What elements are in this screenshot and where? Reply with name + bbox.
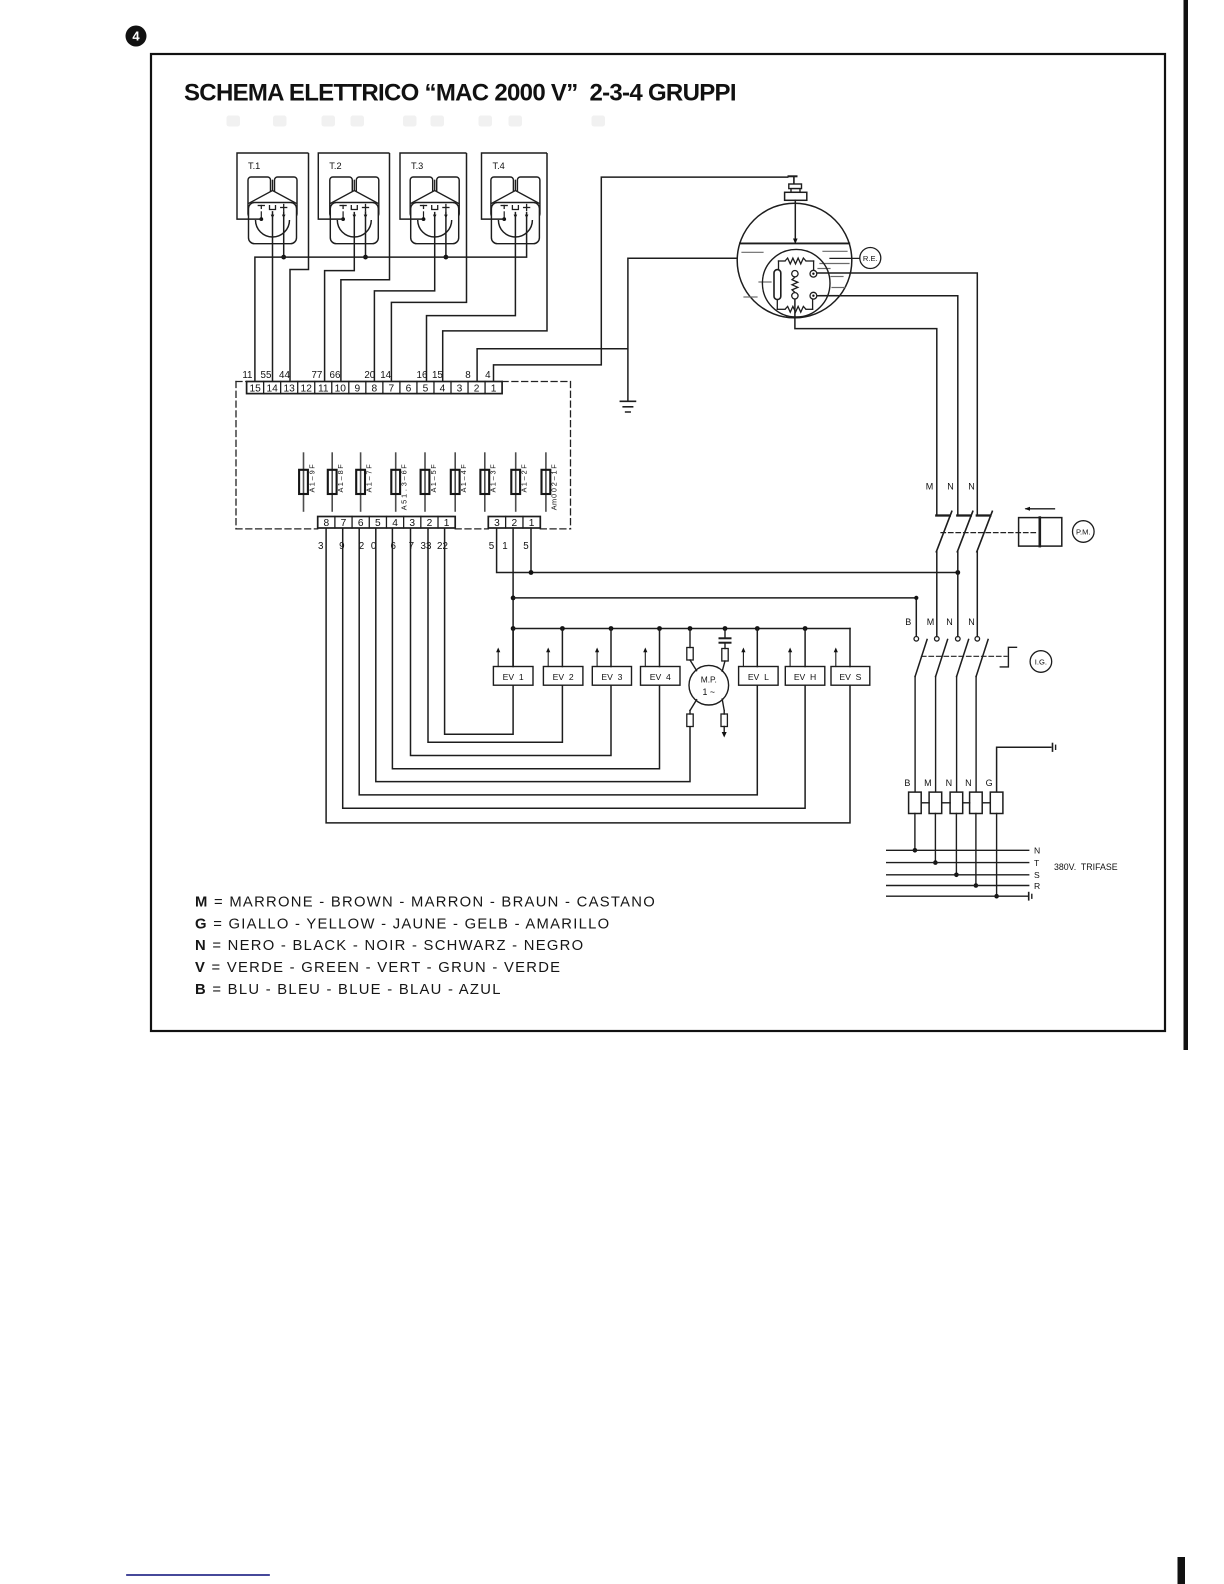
thermostat T.4 [482,153,548,244]
ground symbol [620,401,635,412]
svg-text:16: 16 [417,370,428,381]
heater terminal lower [810,292,817,299]
svg-text:N: N [1034,846,1040,856]
wire terminal block to mains line S [955,814,957,875]
svg-text:3: 3 [318,541,324,552]
wire terminal 2 strip A to earth drop [477,349,628,382]
svg-text:F: F [400,464,409,469]
svg-text:N: N [947,482,954,492]
fuse F6 value F6-3.15A [391,453,408,511]
wire terminal 2 to EV bus and B wire [512,528,514,667]
junction dot EV bus [688,626,693,631]
page number badge 4 [126,26,147,47]
resistor top [779,258,814,270]
svg-text:8: 8 [465,370,471,381]
svg-text:13: 13 [284,384,296,395]
main switch contact pole 4 [975,637,988,793]
wire bus to MP left with connector [687,629,697,671]
main switch contact pole 1 [914,637,927,793]
svg-text:G: G [986,778,993,788]
svg-text:14: 14 [266,384,278,395]
junction dot phase right [955,570,960,575]
svg-text:P.M.: P.M. [1076,527,1091,536]
svg-text:F: F [489,464,498,469]
wire T1 M pin to terminal 14 [272,212,274,382]
mains line R [887,885,1029,887]
heating resistance assembly circle [762,249,830,317]
svg-text:A: A [520,488,529,493]
svg-text:8: 8 [372,384,378,395]
return wire EV L to board terminal [359,528,757,795]
svg-text:11: 11 [242,370,252,381]
svg-text:A: A [429,488,438,493]
wire heater upper terminal to N contact [817,273,978,516]
svg-text:2: 2 [427,518,433,529]
svg-text:14: 14 [380,370,391,381]
wire bus to EV S [849,629,851,667]
solenoid valve EV 4 [641,648,681,686]
svg-text:1: 1 [307,482,316,486]
svg-text:SCHEMA ELETTRICO “MAC 2000 V”: SCHEMA ELETTRICO “MAC 2000 V” 2-3-4 GRUP… [184,80,736,107]
svg-text:G = GIALLO - YELLOW - JAUNE -: G = GIALLO - YELLOW - JAUNE - GELB - AMA… [195,916,610,932]
svg-text:0: 0 [550,488,559,492]
svg-text:M.P.: M.P. [701,674,717,684]
svg-text:2: 2 [520,470,529,474]
svg-text:5: 5 [489,541,495,552]
mains earth line with chassis tap [887,893,1032,900]
svg-text:1: 1 [502,541,507,552]
svg-text:8: 8 [323,518,329,529]
svg-text:12: 12 [301,384,313,395]
svg-text:66: 66 [330,370,341,381]
colour legend [195,894,656,998]
wire + bus to T4 + pin and terminal 15 [255,212,527,382]
wire terminal 3 to phase junction [497,528,958,573]
wire T4 box to terminal 4 [443,153,547,382]
junction dot EV bus [803,626,808,631]
svg-text:EV 3: EV 3 [601,672,622,682]
wire T2 + pin to bus [365,212,367,257]
pressostat P.M. box [1019,507,1062,546]
ghost bleedthrough marks [227,116,241,127]
svg-text:M = MARRONE - BROWN - MARRON -: M = MARRONE - BROWN - MARRON - BRAUN - C… [195,894,656,910]
svg-text:N: N [965,778,972,788]
wire terminal block to mains line R [975,814,977,886]
svg-text:A: A [400,505,409,510]
svg-text:F: F [364,464,373,469]
mains line N [887,849,1029,851]
svg-text:9: 9 [354,384,360,395]
svg-text:1 ~: 1 ~ [703,687,715,697]
svg-text:T.2: T.2 [329,161,341,171]
svg-text:EV H: EV H [794,672,816,682]
svg-text:M: M [924,778,932,788]
svg-text:380V. TRIFASE: 380V. TRIFASE [1054,862,1118,872]
svg-text:N: N [946,617,953,627]
svg-text:F: F [550,464,559,469]
main switch actuator symbol [1000,647,1018,667]
wire T3 box to terminal 7 [391,153,466,382]
svg-text:1: 1 [550,470,559,474]
svg-text:A: A [364,488,373,493]
fuse F1 value F1-200mA [542,453,559,511]
svg-text:EV 4: EV 4 [650,672,671,682]
terminal strip 3-2-1 [488,517,540,530]
page border frame [151,54,1165,1031]
pressostat contact pole 1 [936,511,952,636]
svg-text:1: 1 [444,518,450,529]
svg-text:20: 20 [364,370,375,381]
svg-text:1: 1 [491,384,497,395]
boiler vessel [737,203,852,318]
svg-text:4: 4 [459,470,468,474]
junction dot EV bus [723,626,728,631]
svg-text:F: F [520,464,529,469]
main switch contact pole 2 [935,637,948,793]
svg-text:1: 1 [529,518,535,529]
svg-text:A: A [307,488,316,493]
svg-text:1: 1 [520,482,529,486]
P.M. label circle [1073,521,1095,543]
wire T1 box to terminal 13 [290,153,309,382]
I.G. label circle [1030,651,1052,673]
svg-text:1: 1 [400,494,409,498]
safety valve on boiler top [785,176,807,200]
svg-text:m: m [550,499,559,505]
fuse F9 value F9-1A [299,453,316,511]
bottom right scan mark [1178,1557,1186,1584]
mains terminal block B [909,792,922,813]
fuse F2 value F2-1A [511,453,528,511]
svg-text:3: 3 [409,518,415,529]
boiler water line [740,242,849,244]
contact labels M N N [926,482,975,492]
svg-text:55: 55 [261,370,272,381]
return wire EV S to board terminal [326,528,850,823]
solenoid valve EV 1 [493,648,533,686]
junction dot EV bus [657,626,662,631]
svg-text:4: 4 [132,29,140,44]
svg-text:77: 77 [311,370,322,381]
svg-text:15: 15 [249,384,261,395]
boiler water shading [742,251,849,297]
wire bus to EV 3 [610,629,612,667]
svg-text:7: 7 [389,384,395,395]
svg-text:3: 3 [400,482,409,486]
svg-text:4: 4 [392,518,398,529]
svg-text:1: 1 [336,482,345,486]
strip A external wire numbers [242,370,491,381]
svg-text:EV S: EV S [839,672,861,682]
level probe [793,200,798,244]
terminal block links [921,802,990,804]
solenoid valve EV L [739,648,779,686]
wire T3 M pin to terminal 8 [374,212,434,382]
main switch linkage dashed [922,655,1008,657]
svg-text:I.G.: I.G. [1035,657,1047,666]
capacitor on MP right feed [720,629,731,672]
svg-text:V = VERDE - GREEN - VERT - GRU: V = VERDE - GREEN - VERT - GRUN - VERDE [195,960,561,976]
svg-text:10: 10 [335,384,347,395]
thermostat T.3 [400,153,467,244]
wire T1 + pin to bus [283,212,285,257]
pressostat linkage dashed [941,532,1039,534]
junction dot EV bus [609,626,614,631]
svg-text:1: 1 [364,482,373,486]
wire resistor mid to M contact [795,299,937,516]
return wire EV 1 to board terminal [445,528,513,734]
svg-text:EV 1: EV 1 [503,672,524,682]
pressostat contact pole 2 [957,511,973,636]
svg-text:6: 6 [390,541,396,552]
svg-text:22: 22 [437,541,448,552]
svg-text:7: 7 [409,541,414,552]
wire bus to EV 1 [512,629,514,667]
svg-text:9: 9 [307,470,316,474]
wire G terminal to chassis tap [997,744,1056,793]
svg-text:1: 1 [429,482,438,486]
wire T2 M pin to terminal 11 [325,212,355,382]
svg-text:S: S [1034,870,1040,880]
pressostat contact pole 3 [977,511,993,636]
return wire M.P. to board terminal [376,528,690,782]
heater terminal upper [810,270,817,277]
svg-text:B: B [904,778,910,788]
svg-text:44: 44 [279,370,290,381]
return wire EV H to board terminal [343,528,805,808]
svg-text:M: M [927,617,935,627]
svg-text:5: 5 [400,500,409,504]
svg-text:2: 2 [474,384,480,395]
return wire EV 2 to board terminal [428,528,562,742]
solenoid valve EV 2 [543,648,583,686]
wire terminal 1 strip A to safety valve [494,177,789,381]
svg-text:N: N [946,778,953,788]
svg-text:F: F [336,464,345,469]
svg-text:.: . [400,489,409,491]
svg-text:T: T [1034,858,1040,868]
svg-text:T.4: T.4 [493,161,505,171]
svg-text:33: 33 [421,541,432,552]
fuse F8 value F8-1A [328,453,345,511]
wire heater lower terminal to N contact [817,296,958,516]
wire bus to EV 2 [561,629,563,667]
mains terminal block G [990,792,1003,813]
wire terminal 1 to phase junction [530,528,532,573]
junction dot EV bus left [511,626,516,631]
MP bottom left lead with connector [687,700,697,727]
junction dot phase [529,570,534,575]
junction dot T1+ [281,255,286,260]
corner dot B [914,596,918,600]
svg-text:11: 11 [318,384,329,395]
mains line S [887,874,1029,876]
MP bottom right lead to drain arrow [721,699,727,737]
svg-text:A: A [336,488,345,493]
junction dot EV bus [755,626,760,631]
svg-text:A: A [550,505,559,510]
junction dot B tap [511,596,516,601]
R.E. label leader [830,257,860,259]
svg-text:6: 6 [358,518,364,529]
svg-text:EV L: EV L [748,672,769,682]
wire resistor to capsule [778,261,780,270]
fuse F7 value F7-1A [356,453,373,511]
wire T4 M pin to terminal 5 [427,212,516,382]
svg-text:R.E.: R.E. [863,254,878,263]
wire terminal block to mains line N [914,814,916,851]
fuse F3 value F3-1A [480,453,497,511]
svg-text:8: 8 [336,470,345,474]
svg-text:EV 2: EV 2 [553,672,574,682]
svg-text:5: 5 [375,518,381,529]
control unit dashed box [236,382,571,529]
terminal strip 8-1 [318,517,456,530]
thermostat T.2 [318,153,389,244]
EV supply bus [513,628,850,630]
terminal strip 15-1 [247,382,503,395]
junction dot T3+ [444,255,449,260]
bottom left blue rule [127,1574,269,1576]
wire bus to EV 4 [659,629,661,667]
solenoid valve EV H [785,648,825,686]
strip C external wire numbers [489,541,530,552]
svg-text:7: 7 [364,470,373,474]
svg-text:3: 3 [494,518,500,529]
svg-text:F: F [459,464,468,469]
svg-text:N: N [968,617,975,627]
solenoid valve EV S [831,648,870,686]
svg-text:5: 5 [423,384,429,395]
right edge scan bar [1184,0,1189,1050]
mains line T [887,862,1029,864]
resistor bottom loop [777,299,812,312]
svg-text:T.3: T.3 [411,161,423,171]
svg-text:M: M [926,482,934,492]
wire bus to EV H [804,629,806,667]
mains terminal block N [970,792,983,813]
svg-text:7: 7 [341,518,347,529]
wire bus to EV L [756,629,758,667]
fuse F5 value F5-1A [421,453,438,511]
svg-text:A: A [459,488,468,493]
svg-text:B = BLU - BLEU - BLUE - BLAU -: B = BLU - BLEU - BLUE - BLAU - AZUL [195,982,502,998]
solenoid valve EV 3 [592,648,631,686]
svg-text:2: 2 [550,482,559,486]
wire to main switch B pole [513,598,916,637]
svg-text:6: 6 [400,470,409,474]
wire boiler to earth [628,258,738,401]
svg-text:6: 6 [406,384,412,395]
wire terminal block to mains line earth [996,814,998,897]
svg-text:1: 1 [489,482,498,486]
svg-text:F: F [307,464,316,469]
wire T2 box to terminal 10 [341,153,390,382]
svg-text:5: 5 [429,470,438,474]
svg-text:T.1: T.1 [248,161,260,171]
svg-text:B: B [905,617,911,627]
main switch contact pole 3 [956,637,969,793]
junction dot T2+ [363,255,368,260]
wire T3 + pin to bus [445,212,447,257]
svg-text:9: 9 [339,541,344,552]
svg-text:R: R [1034,881,1040,891]
mains terminal block labels [904,778,992,788]
svg-text:5: 5 [523,541,529,552]
return wire EV 4 to board terminal [392,528,659,769]
svg-text:15: 15 [432,370,443,381]
svg-text:A: A [489,488,498,493]
svg-text:1: 1 [459,482,468,486]
motor pump M.P. [689,665,729,705]
mains line labels [1034,846,1040,891]
thermal bulb capsule [774,270,781,300]
mains terminal block N [950,792,963,813]
wire terminal block to mains line T [934,814,936,863]
contact labels B M N N [905,617,974,627]
svg-text:4: 4 [485,370,491,381]
svg-text:N: N [968,482,975,492]
fuse F4 value F4-1A [451,453,468,511]
svg-text:0: 0 [550,494,559,498]
mains terminal block M [929,792,942,813]
R.E. label circle [860,248,881,269]
svg-text:3: 3 [489,470,498,474]
return wire EV 3 to board terminal [411,528,612,756]
resistor vertical with terminals [792,271,798,299]
strip B external wire numbers [318,541,448,552]
svg-text:4: 4 [440,384,446,395]
thermostat T.1 [237,153,309,244]
svg-text:F: F [429,464,438,469]
svg-text:3: 3 [457,384,463,395]
junction dot EV bus [560,626,565,631]
svg-text:N = NERO - BLACK - NOIR - SCHW: N = NERO - BLACK - NOIR - SCHWARZ - NEGR… [195,938,584,954]
